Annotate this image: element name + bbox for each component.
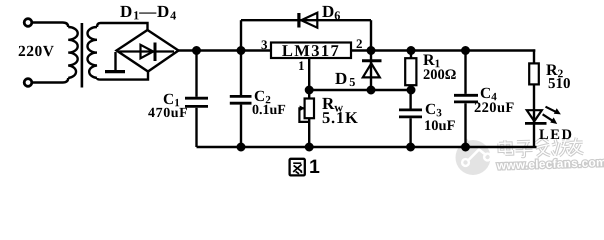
label D1-D4 bbox=[119, 2, 175, 21]
caption figure 1 bbox=[308, 157, 319, 177]
label 470uF bbox=[147, 107, 187, 121]
resistor R1 bbox=[405, 51, 416, 91]
wire D6 branch riser right bbox=[370, 20, 372, 50]
wire LM317 pin2 to R2 corner bbox=[351, 49, 535, 51]
label C3 bbox=[425, 102, 442, 119]
node C4 top bbox=[462, 47, 469, 54]
terminal bottom-left bbox=[24, 79, 32, 87]
label D6 bbox=[321, 3, 339, 22]
LED diode bbox=[525, 110, 547, 147]
node C2 top bbox=[238, 47, 245, 54]
wire D6 top rail bbox=[241, 19, 371, 21]
wire R2 drop bbox=[533, 49, 535, 63]
watermark logo circle bbox=[456, 139, 491, 176]
label 220uF bbox=[473, 101, 514, 116]
capacitor C3 bbox=[399, 90, 422, 147]
label pin 2 bbox=[355, 37, 362, 50]
label 10uF bbox=[423, 118, 454, 133]
wire secondary bottom to bridge bbox=[97, 72, 148, 80]
terminal top-left bbox=[24, 19, 32, 27]
label 200ohm bbox=[422, 68, 455, 83]
label pin 1 bbox=[297, 59, 304, 72]
svg-text:www.elecfans.com: www.elecfans.com bbox=[496, 155, 604, 172]
node R1 top bbox=[408, 47, 415, 54]
label R2 bbox=[545, 62, 562, 80]
label LM317 bbox=[271, 43, 351, 60]
node C2 bottom bbox=[238, 144, 245, 151]
label 220V bbox=[17, 43, 53, 59]
wire bridge output to LM317 pin3 bbox=[179, 49, 272, 51]
node C3 bottom bbox=[407, 144, 414, 151]
bridge rectifier D1-D4 diamond bbox=[117, 30, 179, 72]
bottom rail wire bbox=[197, 146, 537, 148]
regulator U1 LM317 body bbox=[271, 43, 351, 59]
bridge diode symbol bbox=[119, 43, 174, 62]
wire Rw bottom bbox=[308, 118, 310, 147]
label 0.1uF bbox=[252, 104, 286, 118]
caption figure glyph bbox=[290, 159, 305, 176]
label Rw bbox=[322, 95, 343, 114]
transformer secondary winding bbox=[87, 27, 97, 78]
label pin 3 bbox=[260, 38, 267, 51]
label LED bbox=[539, 128, 574, 143]
label D5 bbox=[334, 70, 354, 89]
LED arrow 2 bbox=[543, 114, 558, 124]
wire bottom-left to primary bbox=[32, 78, 68, 83]
transformer core bbox=[81, 23, 84, 88]
wire top-left to primary bbox=[32, 23, 68, 28]
transformer T primary winding bbox=[68, 27, 78, 78]
label 510 bbox=[548, 77, 571, 92]
node C4 bottom bbox=[462, 144, 469, 151]
node ADJ at pin1 bbox=[306, 87, 313, 94]
resistor R2 bbox=[529, 63, 539, 84]
capacitor C1 bbox=[185, 51, 208, 148]
capacitor C4 bbox=[454, 51, 478, 148]
diode D5 bbox=[362, 51, 382, 91]
label R1 bbox=[422, 53, 439, 71]
label C1 bbox=[163, 91, 180, 108]
potentiometer Rw body bbox=[305, 99, 314, 119]
LED arrow 1 bbox=[546, 107, 561, 115]
node output pin2 bbox=[368, 47, 375, 54]
capacitor C2 bbox=[230, 51, 252, 148]
node C1 top bbox=[193, 47, 200, 54]
node Rw bottom bbox=[306, 144, 313, 151]
label C4 bbox=[480, 86, 497, 103]
wire LM317 pin1 bbox=[308, 58, 310, 99]
label C2 bbox=[254, 89, 271, 106]
wire R2 to LED bbox=[533, 84, 535, 123]
node R1 bottom bbox=[408, 87, 415, 94]
node D5 anode bbox=[368, 87, 375, 94]
diode D6 bbox=[299, 13, 317, 28]
wire secondary top to bridge bbox=[97, 23, 148, 30]
wire D6 branch riser left bbox=[240, 20, 242, 50]
watermark text dianzifashaoyou bbox=[499, 137, 584, 158]
label 5.1K bbox=[322, 110, 359, 127]
wire ADJ line bbox=[309, 89, 411, 91]
potentiometer Rw wiper bbox=[299, 106, 309, 122]
ground at bridge bbox=[105, 52, 125, 72]
